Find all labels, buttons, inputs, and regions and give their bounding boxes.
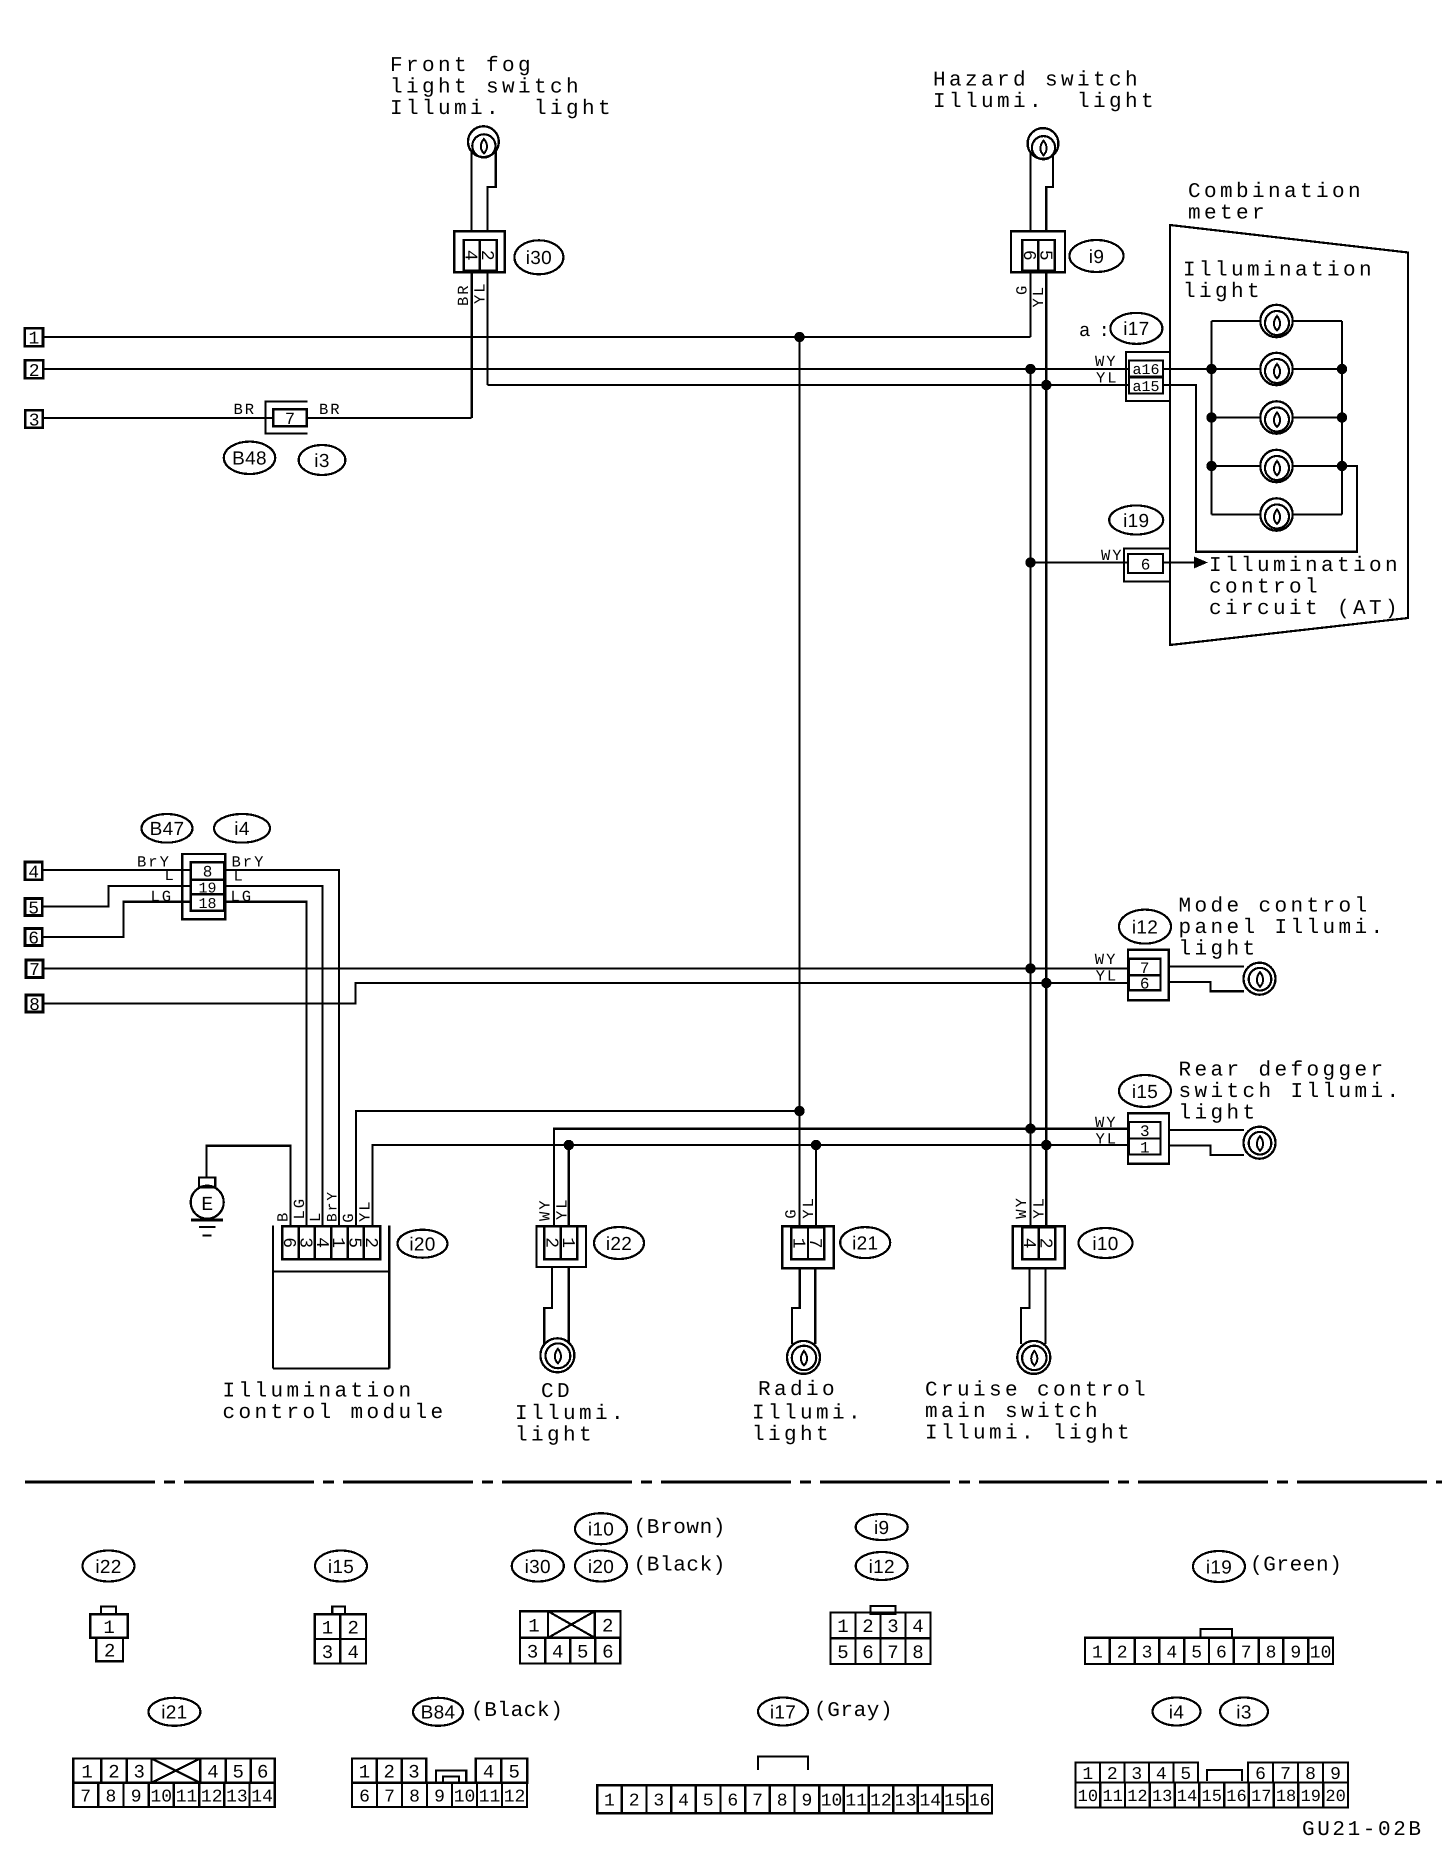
svg-text:12: 12: [1127, 1788, 1147, 1807]
svg-text:Illumi.: Illumi.: [515, 1403, 627, 1426]
svg-text:G: G: [783, 1207, 801, 1218]
svg-text:2: 2: [108, 1761, 119, 1783]
svg-text:4: 4: [1166, 1643, 1177, 1663]
svg-text:i20: i20: [409, 1235, 435, 1256]
svg-text:16: 16: [1226, 1788, 1246, 1807]
svg-text:2: 2: [476, 250, 496, 261]
svg-text:B47: B47: [150, 819, 185, 840]
svg-text:14: 14: [1177, 1788, 1197, 1807]
svg-text:13: 13: [1152, 1788, 1172, 1807]
svg-text:1: 1: [103, 1617, 114, 1639]
svg-text:4: 4: [912, 1616, 923, 1638]
svg-text:11: 11: [1102, 1788, 1122, 1807]
svg-text:10: 10: [1078, 1788, 1098, 1807]
svg-text:a16: a16: [1132, 362, 1159, 379]
svg-text:(Green): (Green): [1250, 1555, 1342, 1578]
svg-text:8: 8: [29, 996, 40, 1016]
svg-text:i30: i30: [526, 248, 552, 269]
svg-text:19: 19: [1301, 1788, 1321, 1807]
svg-text:YL: YL: [357, 1199, 375, 1222]
svg-text:4: 4: [207, 1761, 218, 1783]
svg-text:1: 1: [322, 1618, 333, 1640]
svg-text:11: 11: [479, 1787, 501, 1807]
svg-text:switch Illumi.: switch Illumi.: [1179, 1081, 1403, 1104]
svg-text:2: 2: [347, 1618, 358, 1640]
svg-text:16: 16: [969, 1792, 991, 1812]
svg-text:9: 9: [131, 1787, 142, 1807]
svg-text:14: 14: [919, 1792, 941, 1812]
svg-text:a: a: [1079, 320, 1090, 342]
svg-text:5: 5: [1034, 250, 1054, 261]
svg-text:Illumination: Illumination: [1209, 555, 1401, 578]
svg-text:7: 7: [80, 1787, 91, 1807]
svg-text:i22: i22: [606, 1234, 632, 1255]
svg-text:7: 7: [29, 961, 40, 981]
svg-text:i21: i21: [852, 1233, 878, 1254]
svg-text:L: L: [234, 868, 245, 886]
svg-text:Rear defogger: Rear defogger: [1179, 1059, 1387, 1082]
svg-text:Illumination: Illumination: [223, 1380, 415, 1403]
svg-text:3: 3: [527, 1641, 538, 1663]
svg-text:12: 12: [201, 1787, 223, 1807]
svg-text:2: 2: [360, 1237, 380, 1248]
svg-text:2: 2: [383, 1761, 394, 1783]
svg-text:light: light: [1179, 938, 1259, 961]
svg-text:YL: YL: [1031, 1196, 1049, 1219]
svg-text:WY: WY: [1095, 951, 1118, 969]
svg-text:3: 3: [322, 1642, 333, 1664]
svg-text:GU21-02B: GU21-02B: [1302, 1819, 1424, 1842]
svg-text:2: 2: [1117, 1643, 1128, 1663]
svg-text:10: 10: [150, 1787, 172, 1807]
svg-text:i17: i17: [1123, 319, 1149, 340]
svg-text:i30: i30: [525, 1557, 551, 1578]
svg-text:Illumi. light: Illumi. light: [925, 1422, 1133, 1445]
svg-text:WY: WY: [1013, 1196, 1031, 1219]
svg-text:(Gray): (Gray): [814, 1700, 893, 1723]
svg-text:i17: i17: [770, 1702, 796, 1723]
svg-text:Hazard switch: Hazard switch: [933, 69, 1141, 92]
svg-text:B48: B48: [232, 449, 267, 470]
svg-text:14: 14: [251, 1787, 273, 1807]
svg-text:Illumi. light: Illumi. light: [933, 91, 1157, 114]
svg-text:11: 11: [176, 1787, 198, 1807]
svg-text:8: 8: [409, 1787, 420, 1807]
svg-text:BR: BR: [234, 401, 257, 419]
svg-text:15: 15: [1202, 1788, 1222, 1807]
svg-text:6: 6: [602, 1641, 613, 1663]
svg-text:3: 3: [408, 1761, 419, 1783]
svg-text:B84: B84: [421, 1703, 456, 1724]
svg-text:Front fog: Front fog: [390, 55, 534, 78]
svg-text:(Black): (Black): [634, 1555, 726, 1578]
svg-text:1: 1: [528, 1615, 539, 1637]
svg-text:YL: YL: [1096, 968, 1119, 986]
svg-text:12: 12: [870, 1792, 892, 1812]
svg-text:2: 2: [629, 1792, 640, 1812]
svg-text:2: 2: [29, 362, 40, 382]
svg-text:13: 13: [895, 1792, 917, 1812]
svg-text:i19: i19: [1123, 511, 1149, 532]
svg-text:7: 7: [1241, 1643, 1252, 1663]
svg-text:1: 1: [837, 1616, 848, 1638]
svg-text:L: L: [165, 867, 176, 885]
svg-text:6: 6: [359, 1787, 370, 1807]
svg-text:3: 3: [133, 1761, 144, 1783]
svg-text:i3: i3: [314, 451, 329, 472]
svg-text:G: G: [340, 1211, 358, 1222]
svg-text:7: 7: [804, 1238, 824, 1249]
svg-text:15: 15: [944, 1792, 966, 1812]
svg-text:i12: i12: [1132, 917, 1158, 938]
svg-text:light: light: [515, 1424, 595, 1447]
svg-text:YL: YL: [472, 281, 490, 304]
svg-text:G: G: [1014, 284, 1032, 295]
svg-text:1: 1: [28, 330, 39, 350]
svg-text:1: 1: [604, 1792, 615, 1812]
svg-text:i21: i21: [161, 1703, 187, 1724]
svg-text:YL: YL: [1096, 1131, 1119, 1149]
svg-text:6: 6: [28, 929, 39, 949]
svg-text:5: 5: [837, 1642, 848, 1664]
svg-text:i10: i10: [1092, 1234, 1118, 1255]
svg-text:6: 6: [1140, 976, 1150, 994]
svg-text:a15: a15: [1132, 379, 1159, 396]
svg-text:5: 5: [577, 1641, 588, 1663]
svg-text:18: 18: [198, 896, 216, 913]
svg-text:1: 1: [1092, 1643, 1103, 1663]
svg-text:9: 9: [801, 1792, 812, 1812]
svg-text:YL: YL: [1096, 370, 1119, 388]
svg-text:2: 2: [602, 1615, 613, 1637]
svg-text:12: 12: [504, 1787, 526, 1807]
svg-text:5: 5: [1191, 1643, 1202, 1663]
svg-text:Illumi.: Illumi.: [752, 1402, 864, 1425]
svg-text:YL: YL: [800, 1196, 818, 1219]
svg-text:Cruise control: Cruise control: [925, 1379, 1149, 1402]
svg-text:i10: i10: [588, 1520, 614, 1541]
svg-text:3: 3: [29, 412, 40, 432]
svg-text:11: 11: [845, 1792, 867, 1812]
svg-text:8: 8: [777, 1792, 788, 1812]
svg-text:i15: i15: [328, 1557, 354, 1578]
svg-text:20: 20: [1325, 1788, 1345, 1807]
svg-text:2: 2: [104, 1640, 115, 1662]
svg-text:i20: i20: [588, 1557, 614, 1578]
svg-text:5: 5: [703, 1792, 714, 1812]
svg-text:18: 18: [1276, 1788, 1296, 1807]
svg-text:i4: i4: [1169, 1702, 1185, 1723]
svg-text:E: E: [201, 1194, 213, 1217]
svg-text:8: 8: [105, 1787, 116, 1807]
svg-text:4: 4: [678, 1792, 689, 1812]
svg-text:9: 9: [434, 1787, 445, 1807]
svg-text:(Brown): (Brown): [634, 1517, 726, 1540]
svg-text:7: 7: [384, 1787, 395, 1807]
svg-text::: :: [1099, 320, 1110, 342]
svg-text:YL: YL: [554, 1197, 572, 1220]
svg-text:7: 7: [887, 1642, 898, 1664]
svg-text:B: B: [275, 1211, 293, 1222]
svg-text:10: 10: [454, 1787, 476, 1807]
svg-text:4: 4: [552, 1641, 563, 1663]
svg-text:17: 17: [1251, 1788, 1271, 1807]
svg-text:meter: meter: [1188, 202, 1268, 225]
svg-text:i3: i3: [1236, 1702, 1251, 1723]
svg-text:i12: i12: [869, 1557, 895, 1578]
svg-text:light: light: [752, 1424, 832, 1447]
svg-text:(Black): (Black): [471, 1700, 563, 1723]
svg-text:9: 9: [1290, 1643, 1301, 1663]
svg-text:4: 4: [347, 1642, 358, 1664]
svg-text:main switch: main switch: [925, 1401, 1101, 1424]
svg-text:control module: control module: [223, 1402, 447, 1425]
svg-text:light switch: light switch: [390, 76, 582, 99]
svg-text:6: 6: [1141, 556, 1151, 574]
svg-text:4: 4: [28, 863, 39, 883]
svg-text:3: 3: [1142, 1643, 1153, 1663]
svg-text:LG: LG: [151, 888, 174, 906]
svg-text:light: light: [1179, 1102, 1259, 1125]
svg-text:i4: i4: [234, 819, 250, 840]
svg-text:panel Illumi.: panel Illumi.: [1179, 917, 1387, 940]
svg-text:L: L: [307, 1211, 325, 1222]
svg-text:1: 1: [1140, 1139, 1150, 1157]
svg-text:Combination: Combination: [1188, 181, 1364, 204]
svg-text:1: 1: [557, 1237, 577, 1248]
svg-text:10: 10: [1310, 1643, 1332, 1663]
svg-text:13: 13: [226, 1787, 248, 1807]
svg-text:3: 3: [887, 1616, 898, 1638]
svg-text:1: 1: [359, 1761, 370, 1783]
svg-text:circuit (AT): circuit (AT): [1209, 598, 1401, 621]
svg-text:Mode control: Mode control: [1179, 895, 1371, 918]
svg-text:2: 2: [862, 1616, 873, 1638]
svg-text:1: 1: [81, 1761, 92, 1783]
svg-text:8: 8: [1266, 1643, 1277, 1663]
svg-text:6: 6: [727, 1792, 738, 1812]
svg-text:5: 5: [28, 899, 39, 919]
svg-text:2: 2: [1035, 1238, 1055, 1249]
svg-text:BR: BR: [319, 401, 342, 419]
svg-text:3: 3: [653, 1792, 664, 1812]
svg-text:i22: i22: [95, 1557, 121, 1578]
svg-text:light: light: [1183, 281, 1263, 304]
svg-text:10: 10: [821, 1792, 843, 1812]
svg-text:i19: i19: [1206, 1557, 1232, 1578]
svg-text:8: 8: [912, 1642, 923, 1664]
svg-text:i15: i15: [1132, 1082, 1158, 1103]
svg-text:6: 6: [1216, 1643, 1227, 1663]
svg-text:WY: WY: [537, 1198, 555, 1221]
svg-text:4: 4: [483, 1761, 494, 1783]
svg-text:WY: WY: [1101, 547, 1124, 565]
svg-text:LG: LG: [231, 888, 254, 906]
svg-text:i9: i9: [1089, 247, 1104, 268]
svg-text:5: 5: [232, 1761, 243, 1783]
svg-text:6: 6: [257, 1761, 268, 1783]
svg-text:WY: WY: [1095, 353, 1118, 371]
svg-text:Illumination: Illumination: [1183, 259, 1375, 282]
svg-text:i9: i9: [874, 1518, 889, 1539]
svg-text:YL: YL: [1030, 285, 1048, 308]
svg-text:Illumi. light: Illumi. light: [390, 98, 614, 121]
svg-text:6: 6: [862, 1642, 873, 1664]
svg-text:BR: BR: [455, 283, 473, 306]
svg-text:5: 5: [509, 1761, 520, 1783]
svg-text:control: control: [1209, 576, 1321, 599]
svg-text:CD: CD: [541, 1381, 573, 1404]
svg-text:WY: WY: [1095, 1114, 1118, 1132]
svg-text:7: 7: [752, 1792, 763, 1812]
svg-text:Radio: Radio: [758, 1379, 838, 1402]
svg-text:7: 7: [285, 411, 295, 430]
